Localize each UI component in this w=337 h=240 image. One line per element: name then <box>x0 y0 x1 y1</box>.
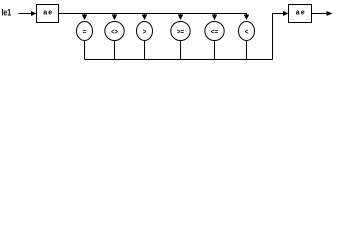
svg-text:<=: <= <box>211 27 219 36</box>
operator circle <> <box>105 22 124 41</box>
wire: riser to box ae2 <box>273 13 284 15</box>
operator circle = <box>77 22 93 41</box>
wire: branch drop 1 <box>84 14 86 16</box>
arrowhead into ae1 <box>31 11 37 16</box>
wire: circle < to bottom bus <box>246 41 248 60</box>
arrowhead into circle <= <box>212 15 218 21</box>
node le1 label <box>2 8 12 18</box>
arrowhead into circle > <box>142 15 148 21</box>
arrowhead output <box>327 11 333 16</box>
arrowhead into circle < <box>244 15 250 21</box>
svg-text:ae: ae <box>296 10 306 17</box>
wire: le1 to box ae1 <box>19 13 32 15</box>
operator circle > <box>137 22 153 41</box>
wire: output <box>312 13 328 15</box>
svg-text:>=: >= <box>177 27 185 36</box>
operator circle <= <box>205 22 224 41</box>
wire: circle > to bottom bus <box>144 41 146 60</box>
box ae1 <box>37 5 59 23</box>
wire: branch drop 4 <box>180 14 182 16</box>
svg-text:le1: le1 <box>2 8 12 18</box>
wire: top bus <box>59 13 247 15</box>
svg-text:ae: ae <box>43 10 53 17</box>
wire: circle >= to bottom bus <box>180 41 182 60</box>
box ae2 <box>289 5 312 23</box>
operator circle >= <box>171 22 190 41</box>
wire: branch drop 2 <box>114 14 116 16</box>
wire: circle <= to bottom bus <box>214 41 216 60</box>
wire: bottom bus <box>85 59 273 61</box>
wire: branch drop 6 <box>246 14 248 16</box>
svg-text:>: > <box>143 27 147 36</box>
wire: right riser <box>272 14 274 60</box>
wire: circle = to bottom bus <box>84 41 86 60</box>
wire: circle <> to bottom bus <box>114 41 116 60</box>
wire: branch drop 3 <box>144 14 146 16</box>
arrowhead into ae2 <box>283 11 289 16</box>
svg-text:<: < <box>245 27 249 36</box>
arrowhead into circle = <box>82 15 88 21</box>
arrowhead into circle >= <box>178 15 184 21</box>
svg-text:=: = <box>83 27 87 36</box>
arrowhead into circle <> <box>112 15 118 21</box>
svg-text:<>: <> <box>111 27 118 36</box>
wire: branch drop 5 <box>214 14 216 16</box>
operator circle < <box>239 22 255 41</box>
